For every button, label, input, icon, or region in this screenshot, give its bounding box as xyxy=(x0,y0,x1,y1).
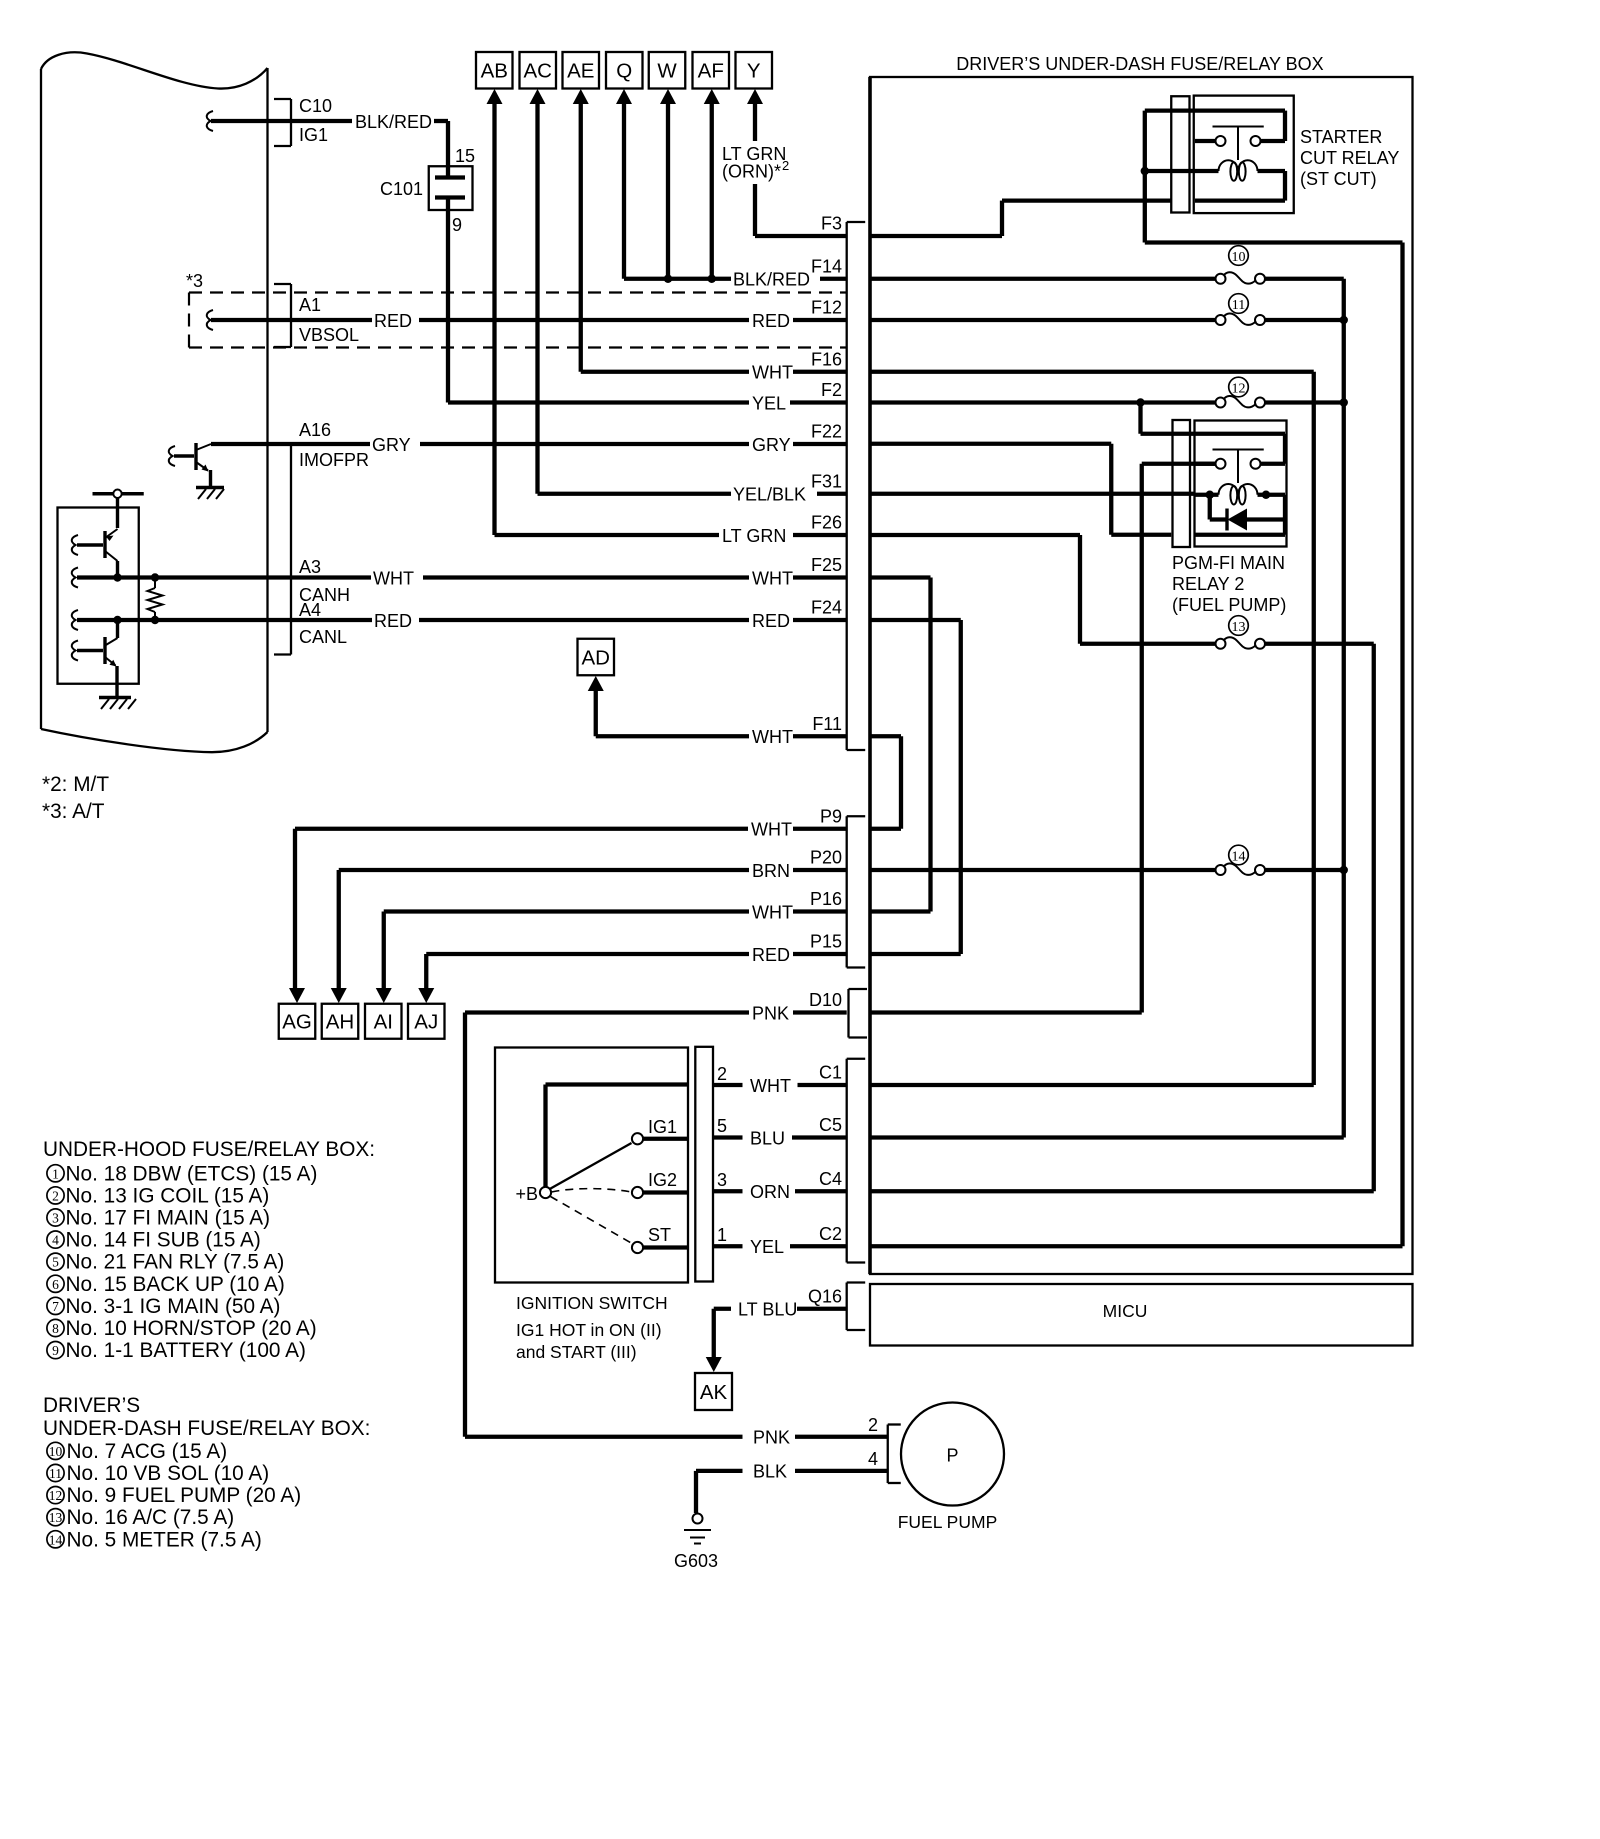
svg-text:9: 9 xyxy=(52,1343,59,1358)
wire F3 to starter cut relay xyxy=(871,234,1002,238)
svg-text:C2: C2 xyxy=(819,1224,842,1244)
svg-text:14: 14 xyxy=(49,1532,63,1547)
arrow into Y xyxy=(747,89,763,104)
svg-text:No. 17 FI MAIN (15 A): No. 17 FI MAIN (15 A) xyxy=(66,1207,271,1230)
svg-text:AH: AH xyxy=(326,1011,354,1034)
svg-text:C4: C4 xyxy=(819,1169,842,1189)
PGM-FI main relay 2 bracket xyxy=(1173,420,1191,547)
wire RED from P15 to AJ xyxy=(424,954,428,988)
svg-text:AB: AB xyxy=(481,60,508,83)
fuse 11 (No.10 VB SOL) xyxy=(1216,315,1226,325)
svg-text:9: 9 xyxy=(452,215,462,235)
svg-text:AF: AF xyxy=(698,60,724,83)
arrow into AK xyxy=(706,1357,722,1372)
CAN driver circuit in ECM xyxy=(113,490,121,498)
svg-text:(ORN)*: (ORN)* xyxy=(722,162,781,182)
wire F22 to PGM-FI relay coil return xyxy=(871,442,1111,446)
ECM/PCM partial outline (torn box) xyxy=(40,69,42,729)
svg-text:No. 3-1 IG MAIN (50 A): No. 3-1 IG MAIN (50 A) xyxy=(66,1295,281,1318)
wire F14 row with fuse 10 xyxy=(871,277,1216,281)
+B terminal xyxy=(540,1187,551,1198)
starter cut relay feed vertical xyxy=(1143,111,1147,243)
starter cut relay ST CUT xyxy=(1171,96,1189,212)
svg-text:WHT: WHT xyxy=(751,820,792,840)
svg-text:4: 4 xyxy=(52,1233,59,1248)
starter cut relay coil return rail to F3 xyxy=(1195,198,1285,202)
wire BLK/RED row to F14 xyxy=(624,277,731,281)
ground (transistor Q1 emitter) xyxy=(196,486,224,489)
svg-text:WHT: WHT xyxy=(752,569,793,589)
connector D bracket xyxy=(847,989,849,1038)
svg-text:5: 5 xyxy=(52,1255,59,1270)
svg-text:YEL: YEL xyxy=(750,1237,784,1257)
connector box AJ xyxy=(408,1004,445,1039)
svg-text:DRIVER’S UNDER-DASH FUSE/RELAY: DRIVER’S UNDER-DASH FUSE/RELAY BOX xyxy=(956,54,1323,74)
svg-text:No. 10 VB SOL (10 A): No. 10 VB SOL (10 A) xyxy=(67,1462,270,1485)
connector P bracket xyxy=(846,816,848,967)
svg-text:A16: A16 xyxy=(299,420,331,440)
svg-text:4: 4 xyxy=(868,1449,878,1469)
arrow into AB xyxy=(487,89,503,104)
svg-text:F25: F25 xyxy=(811,555,842,575)
svg-text:No. 14 FI SUB (15 A): No. 14 FI SUB (15 A) xyxy=(66,1229,261,1252)
svg-text:A3: A3 xyxy=(299,557,321,577)
wire BRN from P20 to AH xyxy=(337,870,341,988)
wire to AE (WHT) xyxy=(579,103,583,372)
wire YEL from C101 down to F2 row xyxy=(446,198,450,403)
svg-text:ST: ST xyxy=(648,1225,671,1245)
arrow into AJ xyxy=(418,988,434,1003)
connector box W xyxy=(649,52,686,89)
svg-text:RED: RED xyxy=(752,311,790,331)
svg-text:P: P xyxy=(946,1446,958,1466)
relay 2 contact output to D10/fuel pump xyxy=(1142,462,1215,466)
wire PNK from D10 down to fuel pump xyxy=(463,1013,467,1437)
connector F bracket xyxy=(846,222,848,750)
svg-text:Q: Q xyxy=(616,60,632,83)
svg-text:IMOFPR: IMOFPR xyxy=(299,450,369,470)
wire F16 to C1 xyxy=(871,370,1314,374)
svg-text:FUEL PUMP: FUEL PUMP xyxy=(898,1512,998,1532)
svg-text:1: 1 xyxy=(717,1225,727,1245)
pin C10 IG1 pigtail wire xyxy=(207,111,213,131)
wire WHT from A3 to F25 xyxy=(291,575,371,579)
wire to W (BLK/RED) xyxy=(666,103,670,279)
svg-text:G603: G603 xyxy=(674,1551,718,1571)
MICU box xyxy=(870,1284,1413,1346)
starter cut relay feed wire xyxy=(1145,108,1285,112)
svg-text:PGM-FI MAIN: PGM-FI MAIN xyxy=(1172,553,1285,573)
connector box AG xyxy=(279,1004,316,1039)
+B feed wire inside switch xyxy=(546,1082,689,1086)
svg-text:*3: *3 xyxy=(186,271,203,291)
ground G603 xyxy=(693,1514,703,1524)
wire PNK to fuel pump pin 2 xyxy=(465,1435,743,1439)
svg-text:AC: AC xyxy=(524,60,553,83)
ignition switch connector bar xyxy=(695,1047,713,1282)
svg-text:7: 7 xyxy=(52,1299,59,1314)
svg-text:10: 10 xyxy=(1232,250,1246,265)
fuse bus vertical to C5 xyxy=(1342,279,1346,1138)
switch contact ST (dashed) xyxy=(551,1197,633,1244)
svg-text:2: 2 xyxy=(717,1064,727,1084)
fuse 13 (No.16 A/C) xyxy=(1216,639,1226,649)
svg-text:and START (III): and START (III) xyxy=(516,1342,637,1362)
svg-text:WHT: WHT xyxy=(752,903,793,923)
wire YEL from C101 to F2 xyxy=(448,400,749,404)
ignition switch box xyxy=(495,1048,688,1283)
svg-text:F22: F22 xyxy=(811,421,842,441)
svg-text:12: 12 xyxy=(1232,381,1246,396)
connector box Y xyxy=(736,52,773,89)
svg-text:AE: AE xyxy=(567,60,594,83)
fuse 10 (No.7 ACG) xyxy=(1216,274,1226,284)
switch contact IG1 xyxy=(550,1143,632,1189)
svg-text:10: 10 xyxy=(49,1444,63,1459)
wire Y to F3 xyxy=(755,234,847,238)
starter cut relay output to C2 xyxy=(1145,240,1403,244)
svg-text:P20: P20 xyxy=(810,848,842,868)
transistor Q2 (CANH) xyxy=(72,535,78,555)
svg-text:A4: A4 xyxy=(299,600,321,620)
svg-text:UNDER-HOOD FUSE/RELAY BOX:: UNDER-HOOD FUSE/RELAY BOX: xyxy=(43,1138,375,1161)
wire C4 row xyxy=(871,1189,1374,1193)
svg-text:GRY: GRY xyxy=(372,435,411,455)
wire F12 row with fuse 11 xyxy=(871,318,1216,322)
pin A4 CANL pigtail xyxy=(72,610,78,630)
ECM pin A1 bracket xyxy=(290,284,292,347)
wire to Y (LT GRN / ORN) xyxy=(753,103,757,141)
svg-text:PNK: PNK xyxy=(753,1428,790,1448)
svg-text:2: 2 xyxy=(868,1415,878,1435)
ground (CAN driver) xyxy=(99,696,131,699)
svg-text:F3: F3 xyxy=(821,214,842,234)
svg-text:No. 10 HORN/STOP (20 A): No. 10 HORN/STOP (20 A) xyxy=(66,1317,317,1340)
svg-text:LT GRN: LT GRN xyxy=(722,526,786,546)
svg-text:F2: F2 xyxy=(821,380,842,400)
svg-text:STARTER: STARTER xyxy=(1300,127,1382,147)
svg-text:F16: F16 xyxy=(811,349,842,369)
svg-text:VBSOL: VBSOL xyxy=(299,325,359,345)
arrow into AG xyxy=(289,988,305,1003)
svg-text:BLK: BLK xyxy=(753,1462,787,1482)
wire WHT from P16 to AI xyxy=(382,912,386,989)
wire YEL/BLK from AC to F31 xyxy=(538,492,732,496)
svg-text:F14: F14 xyxy=(811,256,842,276)
connector box AH xyxy=(322,1004,359,1039)
svg-text:YEL/BLK: YEL/BLK xyxy=(733,485,806,505)
svg-text:AK: AK xyxy=(700,1381,728,1404)
svg-text:MICU: MICU xyxy=(1103,1301,1148,1321)
wire F24 to P15 (internal) xyxy=(871,618,961,622)
connector box AD xyxy=(578,639,615,676)
arrow into AH xyxy=(331,988,347,1003)
wire WHT from AE to F16 xyxy=(581,370,749,374)
svg-text:D10: D10 xyxy=(809,990,842,1010)
svg-text:13: 13 xyxy=(49,1510,63,1525)
connector box AE xyxy=(563,52,600,89)
wire F2 row with fuse 12 xyxy=(871,400,1216,404)
svg-text:F31: F31 xyxy=(811,471,842,491)
wire GRY from A16 to F22 xyxy=(211,442,291,446)
connector Q bracket xyxy=(846,1283,848,1331)
svg-text:BLU: BLU xyxy=(750,1129,785,1149)
svg-text:IG1 HOT in ON (II): IG1 HOT in ON (II) xyxy=(516,1320,662,1340)
fuse 14 (No.5 METER) xyxy=(1216,865,1226,875)
fuel pump motor P xyxy=(901,1403,1004,1506)
svg-text:WHT: WHT xyxy=(373,569,414,589)
wire F25 to P16 (internal) xyxy=(871,575,931,579)
svg-text:C1: C1 xyxy=(819,1063,842,1083)
transistor Q1 (IMOFPR driver) in ECM xyxy=(169,446,175,466)
svg-text:No. 5 METER (7.5 A): No. 5 METER (7.5 A) xyxy=(67,1528,262,1551)
relay 2 clamp diode xyxy=(1208,495,1212,520)
svg-text:GRY: GRY xyxy=(752,435,791,455)
fuse 13 row to C4 xyxy=(1080,642,1216,646)
svg-text:WHT: WHT xyxy=(750,1076,791,1096)
svg-text:1: 1 xyxy=(52,1166,59,1181)
svg-text:F24: F24 xyxy=(811,598,842,618)
svg-text:*3: A/T: *3: A/T xyxy=(42,800,105,823)
svg-text:UNDER-DASH FUSE/RELAY BOX:: UNDER-DASH FUSE/RELAY BOX: xyxy=(43,1417,370,1440)
svg-text:P9: P9 xyxy=(820,806,842,826)
wire RED from A1 to F12 xyxy=(291,318,372,322)
switch contact IG2 (dashed) xyxy=(552,1189,632,1192)
wire A3 CANH row start xyxy=(72,568,78,588)
arrow into AF xyxy=(704,89,720,104)
wire BLK/RED from C10 to C101 xyxy=(291,119,352,123)
svg-text:YEL: YEL xyxy=(752,394,786,414)
svg-text:RED: RED xyxy=(752,611,790,631)
svg-text:Y: Y xyxy=(747,60,761,83)
connector C bracket xyxy=(846,1059,848,1263)
wire C2 row xyxy=(871,1244,1403,1248)
svg-text:No. 13 IG COIL (15 A): No. 13 IG COIL (15 A) xyxy=(66,1184,270,1207)
fuel pump connector bracket xyxy=(887,1425,889,1484)
arrow into Q xyxy=(616,89,632,104)
transistor Q3 (CANL) xyxy=(116,620,119,638)
relay 2 contacts xyxy=(1251,459,1261,469)
connector box AK xyxy=(695,1373,732,1410)
inline connector C101 xyxy=(429,166,473,210)
svg-text:5: 5 xyxy=(717,1116,727,1136)
svg-text:RED: RED xyxy=(374,611,412,631)
svg-text:AG: AG xyxy=(282,1011,312,1034)
wire to Q (BLK/RED) xyxy=(622,103,626,279)
svg-text:F12: F12 xyxy=(811,298,842,318)
wire LT GRN from AB to F26 xyxy=(495,533,720,537)
svg-text:AJ: AJ xyxy=(414,1011,438,1034)
wire F31 to PGM-FI relay coil xyxy=(871,492,1195,496)
wire P20 row with fuse 14 xyxy=(871,868,1216,872)
ECM pins A16/A3/A4 bracket xyxy=(290,444,292,655)
svg-text:15: 15 xyxy=(455,146,475,166)
wire RED from A4 to F24 xyxy=(291,618,372,622)
connector box AI xyxy=(365,1004,402,1039)
arrow into AC xyxy=(530,89,546,104)
wire F26 to fuse 13 xyxy=(871,533,1080,537)
svg-text:A1: A1 xyxy=(299,295,321,315)
wire WHT from F11 to AD xyxy=(594,690,598,736)
fuse 12 (No.9 FUEL PUMP) xyxy=(1216,398,1226,408)
relay 2 coil return rail xyxy=(1283,495,1287,535)
svg-text:*2: M/T: *2: M/T xyxy=(42,773,109,796)
svg-text:No. 1-1 BATTERY (100 A): No. 1-1 BATTERY (100 A) xyxy=(66,1339,306,1362)
svg-text:6: 6 xyxy=(52,1277,59,1292)
svg-text:Q16: Q16 xyxy=(808,1286,842,1306)
svg-text:RELAY 2: RELAY 2 xyxy=(1172,574,1244,594)
svg-text:F26: F26 xyxy=(811,513,842,533)
pin A1 VBSOL pigtail xyxy=(207,310,213,330)
svg-text:DRIVER’S: DRIVER’S xyxy=(43,1394,140,1417)
svg-text:No. 16 A/C (7.5 A): No. 16 A/C (7.5 A) xyxy=(67,1506,235,1529)
svg-text:13: 13 xyxy=(1232,620,1246,635)
svg-text:3: 3 xyxy=(52,1211,59,1226)
svg-text:LT BLU: LT BLU xyxy=(738,1300,797,1320)
svg-text:IG2: IG2 xyxy=(648,1170,677,1190)
arrow into W xyxy=(660,89,676,104)
svg-text:(FUEL PUMP): (FUEL PUMP) xyxy=(1172,595,1286,615)
arrow into AI xyxy=(376,988,392,1003)
svg-text:No. 9 FUEL PUMP (20 A): No. 9 FUEL PUMP (20 A) xyxy=(67,1484,302,1507)
svg-text:BLK/RED: BLK/RED xyxy=(733,270,810,290)
svg-text:No. 7 ACG (15 A): No. 7 ACG (15 A) xyxy=(67,1440,228,1463)
svg-text:AI: AI xyxy=(374,1011,393,1034)
svg-text:BLK/RED: BLK/RED xyxy=(355,112,432,132)
svg-text:3: 3 xyxy=(717,1170,727,1190)
starter cut relay contacts xyxy=(1251,136,1261,146)
svg-text:IG1: IG1 xyxy=(648,1117,677,1137)
svg-text:W: W xyxy=(657,60,677,83)
svg-text:CUT RELAY: CUT RELAY xyxy=(1300,148,1399,168)
connector box AB xyxy=(476,52,513,89)
wire D10 to relay contact xyxy=(871,1010,1142,1014)
wire to AB (LT GRN) xyxy=(492,103,496,535)
relay 2 contact feed from fuse 12 xyxy=(1138,403,1142,434)
svg-text:C101: C101 xyxy=(380,179,423,199)
svg-text:No. 15 BACK UP (10 A): No. 15 BACK UP (10 A) xyxy=(66,1273,285,1296)
relay 2 coil xyxy=(1219,484,1258,495)
svg-text:11: 11 xyxy=(49,1466,62,1481)
svg-text:IGNITION SWITCH: IGNITION SWITCH xyxy=(516,1293,668,1313)
svg-text:No. 21 FAN RLY (7.5 A): No. 21 FAN RLY (7.5 A) xyxy=(66,1251,285,1274)
ECM pin C10 bracket xyxy=(290,99,292,146)
svg-text:8: 8 xyxy=(52,1321,59,1336)
connector box AC xyxy=(520,52,557,89)
svg-text:P16: P16 xyxy=(810,889,842,909)
svg-text:IG1: IG1 xyxy=(299,125,328,145)
svg-text:RED: RED xyxy=(752,945,790,965)
wire to AC (YEL/BLK) xyxy=(535,103,539,494)
wire to AF (BLK/RED) xyxy=(710,103,714,279)
wire LT BLU from Q16 to AK xyxy=(714,1307,731,1311)
svg-text:12: 12 xyxy=(49,1488,63,1503)
connector box AF xyxy=(693,52,730,89)
arrow into AD xyxy=(588,676,604,691)
wire WHT from P9 to AG xyxy=(293,829,297,988)
wire BLK from fuel pump pin 4 to G603 xyxy=(696,1469,743,1473)
arrow into AE xyxy=(573,89,589,104)
svg-text:CANL: CANL xyxy=(299,627,347,647)
svg-text:P15: P15 xyxy=(810,932,842,952)
svg-text:AD: AD xyxy=(582,646,610,669)
svg-text:(ST CUT): (ST CUT) xyxy=(1300,169,1377,189)
wire C5 row xyxy=(871,1135,1344,1139)
svg-text:2: 2 xyxy=(782,158,789,173)
svg-text:WHT: WHT xyxy=(752,727,793,747)
resistor (CAN termination) xyxy=(154,578,156,589)
connector box Q xyxy=(606,52,643,89)
svg-text:+B: +B xyxy=(515,1184,538,1204)
svg-text:C10: C10 xyxy=(299,96,332,116)
starter cut relay coil xyxy=(1219,160,1258,171)
svg-text:ORN: ORN xyxy=(750,1182,790,1202)
svg-text:2: 2 xyxy=(52,1188,59,1203)
svg-text:11: 11 xyxy=(1232,298,1245,313)
svg-text:No. 18 DBW (ETCS) (15 A): No. 18 DBW (ETCS) (15 A) xyxy=(66,1162,318,1185)
svg-text:C5: C5 xyxy=(819,1115,842,1135)
svg-text:F11: F11 xyxy=(812,714,842,734)
svg-text:14: 14 xyxy=(1232,849,1246,864)
svg-text:WHT: WHT xyxy=(752,363,793,383)
svg-text:RED: RED xyxy=(374,311,412,331)
svg-text:BRN: BRN xyxy=(752,861,790,881)
wire F11 to P9 (internal) xyxy=(871,734,901,738)
svg-text:PNK: PNK xyxy=(752,1004,789,1024)
wire C1 row xyxy=(871,1083,1314,1087)
